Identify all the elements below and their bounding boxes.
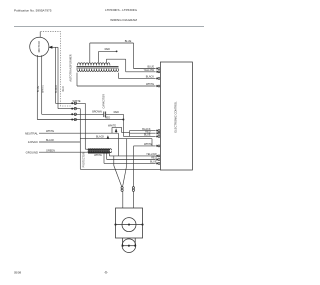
svg-text:LTF530FS - LTF530FG: LTF530FS - LTF530FG: [105, 8, 137, 12]
svg-text:120VAC: 120VAC: [28, 140, 38, 144]
svg-text:WHITE: WHITE: [108, 124, 116, 127]
svg-text:CAPACITOR: CAPACITOR: [103, 94, 106, 109]
svg-text:05/08: 05/08: [14, 271, 21, 275]
svg-text:WHITE: WHITE: [46, 130, 54, 133]
svg-text:RED: RED: [105, 117, 110, 120]
svg-text:RED: RED: [114, 111, 119, 114]
svg-text:WHITE: WHITE: [94, 154, 102, 157]
svg-text:BLACK: BLACK: [146, 76, 155, 79]
svg-text:BLUE: BLUE: [144, 134, 151, 137]
svg-text:WIRING DIAGRAM: WIRING DIAGRAM: [110, 18, 137, 22]
svg-text:BLACK: BLACK: [96, 136, 105, 139]
svg-text:NEUTRAL: NEUTRAL: [25, 131, 38, 135]
svg-text:RED: RED: [151, 157, 156, 160]
svg-text:WHITE: WHITE: [144, 143, 152, 146]
svg-text:YELLOW: YELLOW: [146, 153, 157, 156]
svg-text:RED: RED: [62, 86, 65, 91]
svg-text:YELLOW: YELLOW: [144, 69, 155, 72]
svg-text:WHITE: WHITE: [42, 85, 45, 93]
svg-text:BLACK: BLACK: [46, 139, 55, 142]
svg-text:RED: RED: [105, 48, 110, 51]
svg-text:BROWN: BROWN: [92, 110, 102, 113]
svg-text:Publication No. 5995A7975: Publication No. 5995A7975: [14, 9, 52, 13]
svg-text:-6-: -6-: [104, 271, 108, 275]
svg-text:BLACK: BLACK: [55, 85, 58, 94]
svg-text:BLUE: BLUE: [37, 85, 40, 92]
svg-text:WHITE: WHITE: [146, 83, 154, 86]
svg-text:ELECTRONIC CONTROL: ELECTRONIC CONTROL: [174, 101, 178, 133]
svg-text:BLUE: BLUE: [150, 161, 157, 164]
svg-text:AUTOTRANSFORMER: AUTOTRANSFORMER: [69, 54, 73, 81]
svg-text:GROUND: GROUND: [26, 151, 38, 155]
svg-text:PROTECTOR: PROTECTOR: [82, 152, 85, 167]
svg-text:MOTOR: MOTOR: [37, 40, 41, 52]
svg-text:BLUE: BLUE: [125, 40, 132, 43]
svg-text:WHITE: WHITE: [72, 100, 80, 103]
